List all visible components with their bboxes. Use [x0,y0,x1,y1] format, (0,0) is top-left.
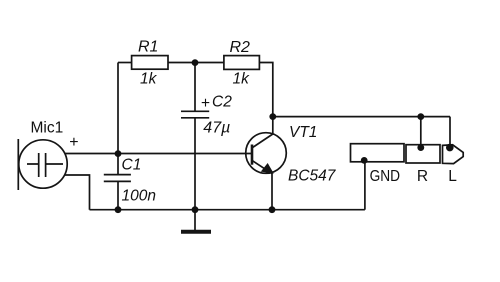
svg-text:+: + [69,134,78,151]
label Mic1 [31,120,64,137]
node L pad pin dot [446,144,454,152]
node R pad pin dot [417,144,424,151]
svg-text:1k: 1k [233,71,251,88]
transistor Q1 emitter arrow [262,164,273,173]
svg-text:1k: 1k [140,71,158,88]
node C1 top junction dot [115,150,122,157]
svg-text:+: + [201,95,210,112]
connector R pad [406,145,440,163]
capacitor C1 [104,175,131,182]
svg-text:R2: R2 [230,39,251,56]
value 1k of R2 [233,71,251,88]
ground [181,210,211,232]
wire C1 bottom lead [117,181,119,209]
microphone Mic1 left electrode line [17,139,19,190]
svg-text:R: R [417,168,428,185]
label C2 with polarity [201,93,232,112]
transistor Q1 collector stroke [253,134,273,148]
transistor Q1 emitter stroke [253,161,273,174]
svg-text:Mic1: Mic1 [31,120,64,137]
svg-text:BC547: BC547 [288,168,337,185]
wire mic lower lead with corner [65,175,90,210]
wire R1 to node A [168,62,195,64]
wire corner down to L terminal [449,117,451,147]
wire bottom rail [90,209,365,211]
wire bottom rail up to GND terminal [364,161,366,210]
svg-text:R1: R1 [138,39,158,56]
svg-text:C2: C2 [212,93,232,110]
value 100n of C1 [122,188,156,205]
node C1 bottom junction dot [115,206,122,213]
connector L jack tip [443,145,464,164]
label R [417,168,428,185]
value 47u of C2 [203,120,230,137]
resistor R2 [224,56,260,70]
svg-text:47µ: 47µ [203,120,230,137]
wire top-right horizontal rail [273,116,450,118]
node emitter junction dot [269,206,276,213]
polarity plus of Mic1 [69,134,78,151]
wire C1 top lead [117,154,119,175]
label GND [370,168,401,185]
label VT1 [289,124,317,141]
microphone Mic1 circle [19,140,67,188]
wire collector vertical [272,117,274,135]
svg-text:L: L [448,168,457,185]
wire top rail left segment (R1 left to left vertical) [118,62,132,64]
capacitor C2 [181,111,209,118]
svg-text:C1: C1 [122,157,142,174]
svg-text:100n: 100n [122,188,156,205]
wire drop to R terminal [420,117,422,148]
transistor Q1 circle [246,133,287,174]
wire left vertical drop to base line [117,63,119,154]
wire C2 top lead [194,63,196,112]
microphone Mic1 internal capacitor [27,153,63,177]
wire node A to R2 [195,62,224,64]
resistor R1 [132,56,168,70]
node A junction dot R1/R2/C2 [192,59,199,66]
connector GND pad [351,144,405,162]
node R-branch junction dot [417,113,424,120]
label C1 [122,157,142,174]
value BC547 [288,168,337,185]
node GND pad pin dot [361,157,368,164]
label R2 [230,39,251,56]
transistor Q1 base bar [251,145,254,165]
wire emitter vertical [271,174,273,210]
wire C2 bottom lead crossing base line [194,118,196,210]
svg-text:GND: GND [370,168,401,185]
value 1k of R1 [140,71,158,88]
node ground junction dot [192,206,199,213]
node collector junction dot [269,113,276,120]
wire R2 right with corner down [259,63,272,117]
label L [448,168,457,185]
svg-text:VT1: VT1 [289,124,317,141]
label R1 [138,39,158,56]
wire base line from mic to transistor [65,153,252,155]
